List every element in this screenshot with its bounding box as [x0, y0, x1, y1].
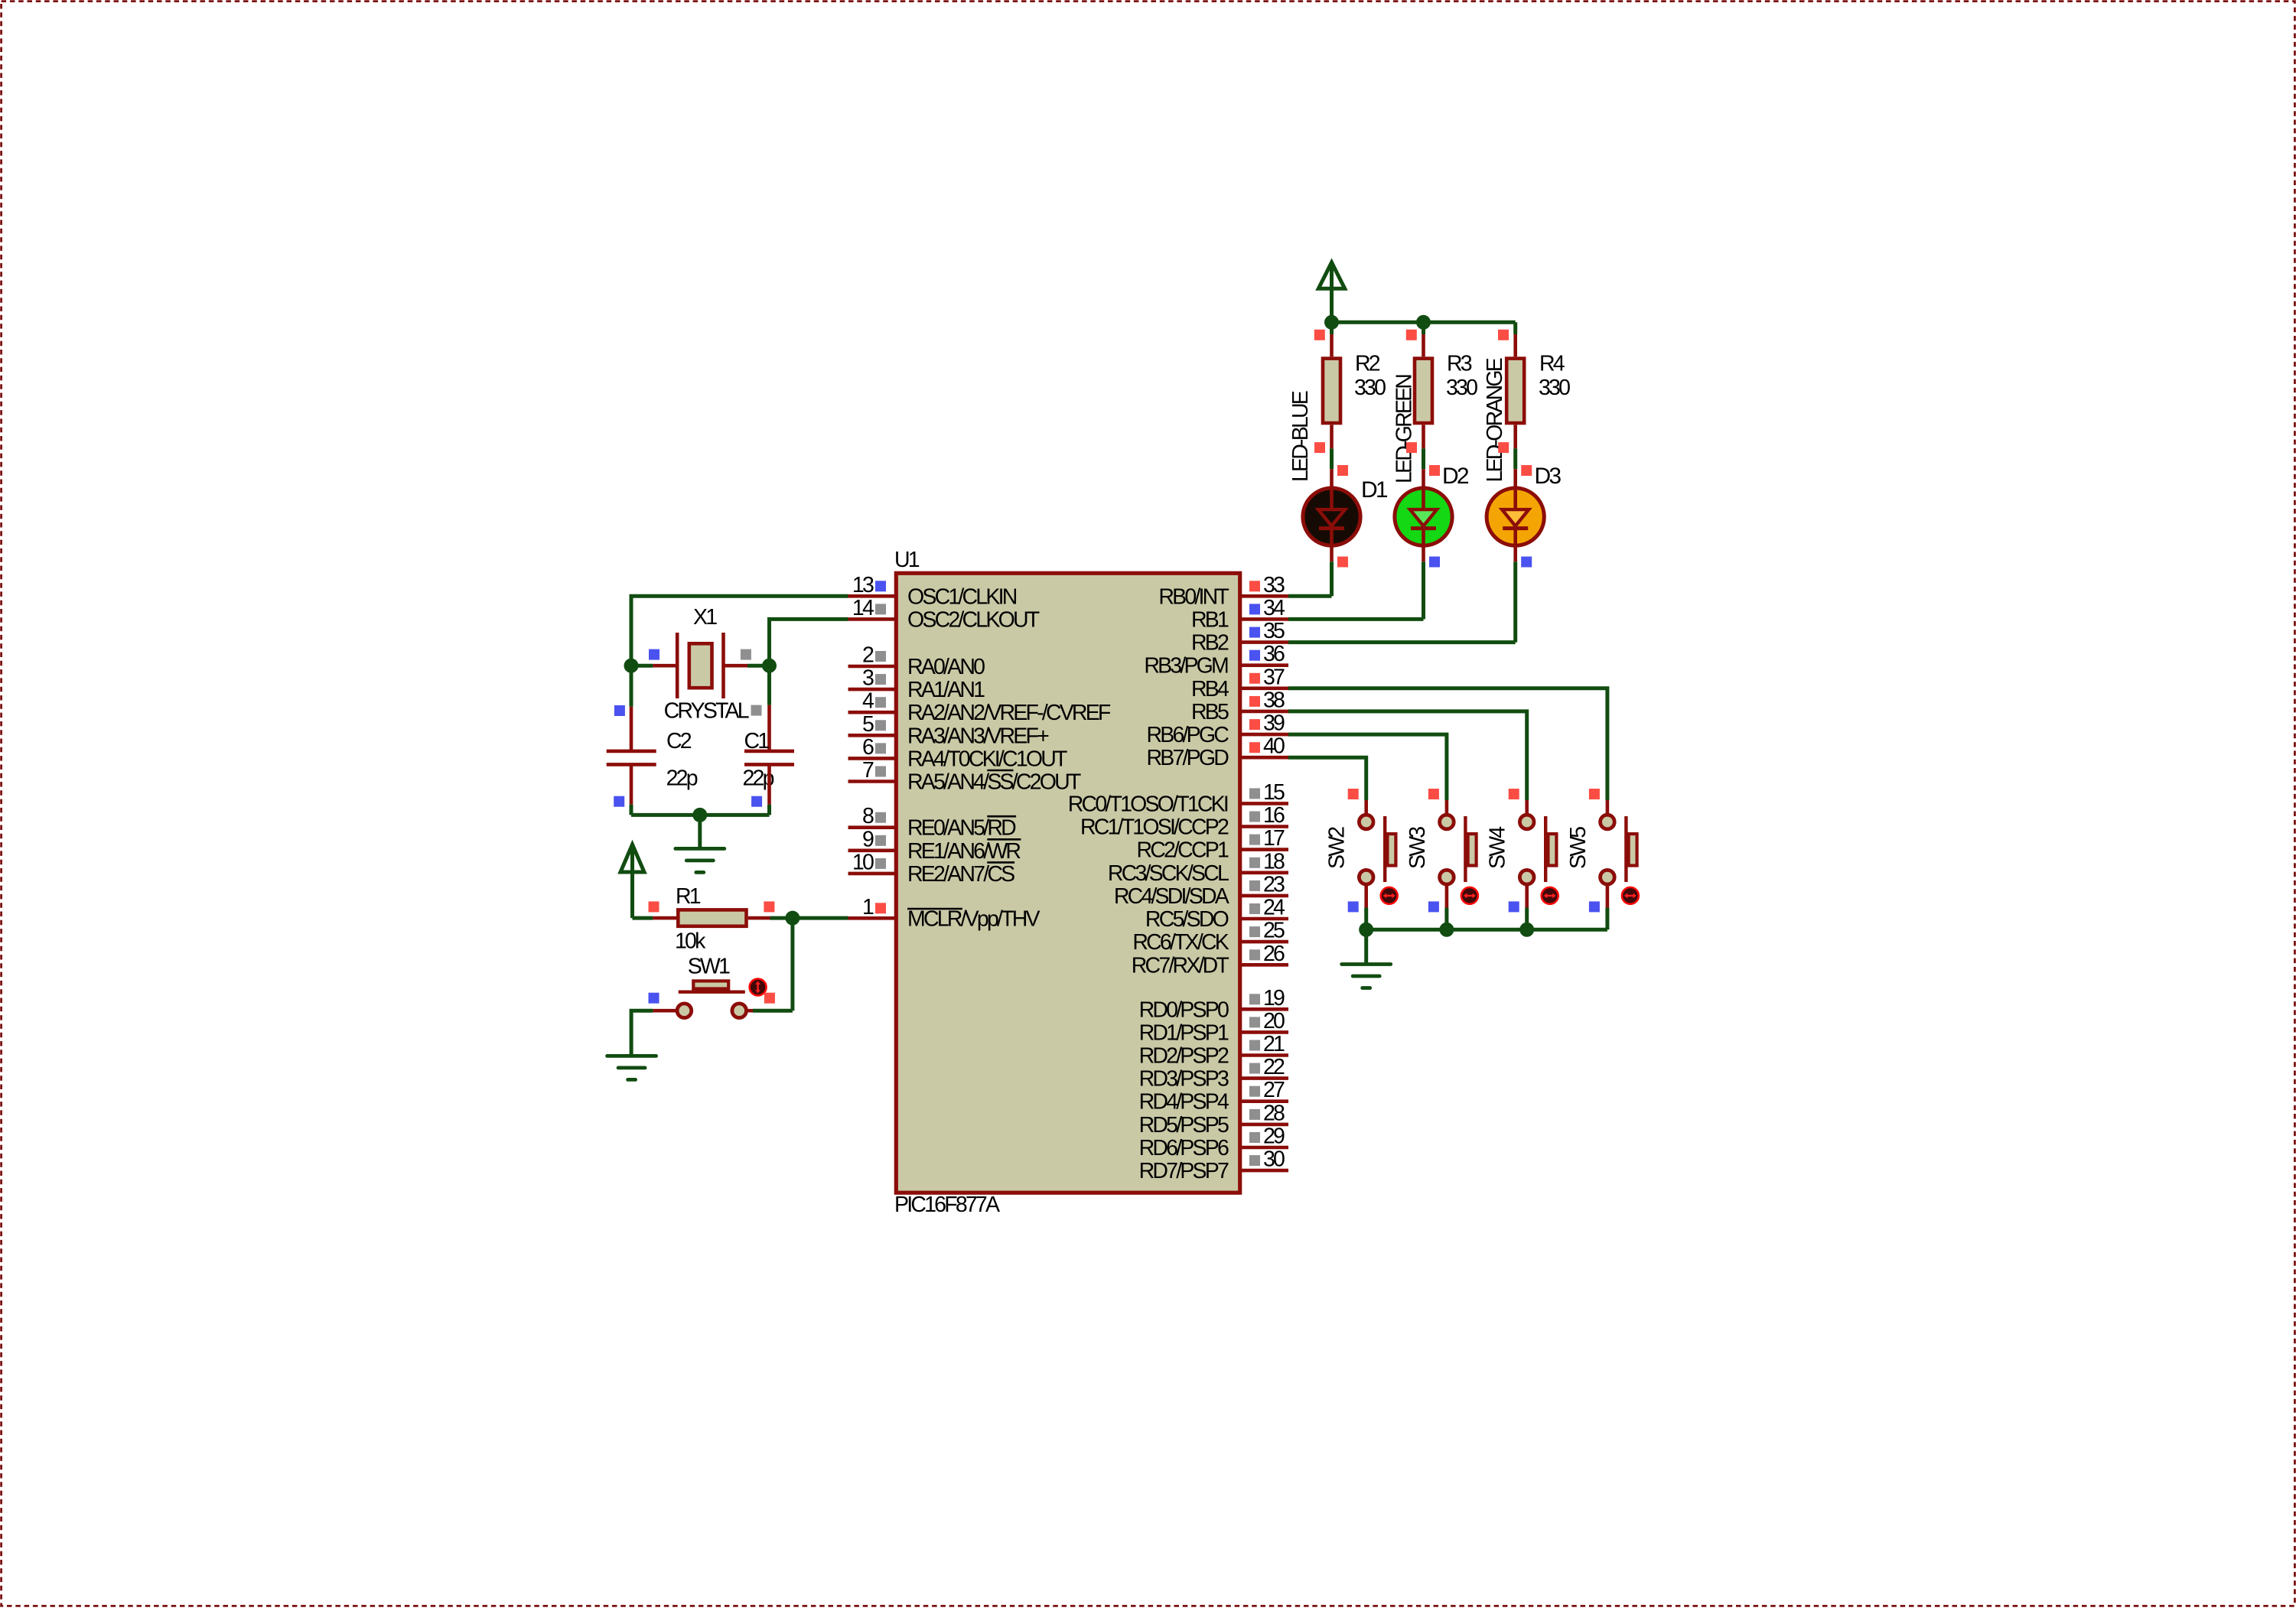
svg-text:R2: R2	[1355, 352, 1380, 376]
U1 pin 34 (RB1)	[1191, 596, 1288, 633]
ground (crystal)	[676, 848, 725, 872]
crystal X1 right pin	[724, 664, 748, 668]
wire D1 cathode down	[1330, 561, 1334, 596]
svg-text:LED-ORANGE: LED-ORANGE	[1483, 358, 1507, 482]
switch SW5 top pin	[1606, 800, 1610, 814]
power symbol (VCC at LEDs)	[1318, 262, 1344, 288]
U1 pin 25 (RC6/TX/CK)	[1132, 919, 1288, 955]
wire crystal left lead	[631, 664, 653, 668]
wire rail to switches ground	[1364, 929, 1368, 964]
capacitor C1 bottom pin	[767, 764, 771, 804]
LED D3 top pin	[1513, 469, 1517, 488]
switch SW2 bottom pin state square	[1348, 901, 1359, 912]
svg-text:C2: C2	[666, 729, 692, 753]
overline WR of RE1/AN6/WR	[987, 838, 1021, 841]
wire MCLR junction down to SW1	[790, 918, 794, 1011]
svg-text:RD2/PSP2: RD2/PSP2	[1139, 1044, 1229, 1069]
svg-text:RA0/AN0: RA0/AN0	[907, 655, 985, 679]
svg-text:RC3/SCK/SCL: RC3/SCK/SCL	[1108, 861, 1229, 886]
wire U1 to SW3	[1288, 734, 1447, 800]
U1 pin 33 (RB0/INT)	[1158, 573, 1288, 610]
U1 pin 35 (RB2)	[1191, 619, 1288, 656]
LED D2 top pin	[1422, 469, 1425, 488]
svg-text:RD4/PSP4: RD4/PSP4	[1139, 1090, 1229, 1115]
svg-text:RA3/AN3/VREF+: RA3/AN3/VREF+	[907, 724, 1049, 748]
svg-text:X1: X1	[693, 605, 717, 630]
svg-text:6: 6	[862, 735, 874, 760]
capacitor C2 bottom pin	[630, 764, 633, 804]
switch SW3 bottom pin state square	[1428, 901, 1439, 912]
resistor R4 bottom pin state square	[1498, 442, 1509, 453]
switch SW1 left pin	[653, 1009, 676, 1013]
wire rail to R4	[1513, 322, 1517, 334]
svg-text:9: 9	[862, 827, 874, 851]
switch SW1 left pin state square	[649, 993, 659, 1004]
resistor R2 bottom pin state square	[1314, 442, 1325, 453]
U1 pin 10 (RE2/AN7/CS)	[848, 850, 1015, 887]
svg-text:40: 40	[1263, 734, 1285, 759]
LED D1 top pin	[1330, 469, 1334, 488]
svg-text:36: 36	[1263, 642, 1285, 666]
U1 pin 8 (RE0/AN5/RD)	[848, 804, 1017, 841]
node rail at SW4	[1519, 923, 1534, 937]
switch SW3 top pin	[1445, 800, 1449, 814]
switch SW4 top pin	[1525, 800, 1529, 814]
svg-text:RB2: RB2	[1191, 631, 1229, 656]
svg-text:RE2/AN7/CS: RE2/AN7/CS	[907, 862, 1014, 887]
U1 pin 29 (RD6/PSP6)	[1139, 1124, 1288, 1161]
svg-text:27: 27	[1263, 1078, 1285, 1102]
switch SW3	[1440, 815, 1478, 904]
wire SW4 to ground rail	[1525, 908, 1529, 930]
switch SW1	[677, 979, 766, 1018]
svg-text:RB4: RB4	[1191, 677, 1229, 701]
svg-text:25: 25	[1263, 919, 1285, 943]
U1 pin 18 (RC3/SCK/SCL)	[1108, 849, 1288, 886]
svg-text:PIC16F877A: PIC16F877A	[894, 1193, 1000, 1217]
node rail at SW3	[1439, 923, 1454, 937]
resistor R1 right pin state square	[764, 901, 774, 912]
svg-text:RC7/RX/DT: RC7/RX/DT	[1132, 953, 1229, 978]
svg-text:RD7/PSP7: RD7/PSP7	[1139, 1159, 1229, 1183]
svg-text:R4: R4	[1539, 352, 1565, 376]
U1 pin 38 (RB5)	[1191, 688, 1288, 724]
svg-text:29: 29	[1263, 1124, 1285, 1149]
svg-text:RE1/AN6/WR: RE1/AN6/WR	[907, 839, 1021, 864]
svg-text:RC6/TX/CK: RC6/TX/CK	[1132, 930, 1229, 955]
svg-text:13: 13	[852, 573, 874, 597]
svg-text:330: 330	[1446, 376, 1477, 400]
wire rail to R3	[1422, 322, 1425, 334]
svg-text:SW5: SW5	[1566, 827, 1591, 869]
svg-text:37: 37	[1263, 665, 1285, 689]
svg-text:R1: R1	[676, 884, 701, 909]
resistor R2 body	[1323, 359, 1340, 423]
LED D3 top pin state square	[1521, 465, 1532, 476]
svg-text:24: 24	[1263, 896, 1285, 920]
capacitor C1	[744, 751, 794, 765]
wire SW2 to ground rail	[1364, 908, 1368, 930]
LED D3 bottom pin state square	[1521, 557, 1532, 568]
U1 pin 7 (RA5/AN4/SS/C2OUT)	[848, 758, 1081, 795]
svg-text:RA4/T0CKI/C1OUT: RA4/T0CKI/C1OUT	[907, 747, 1067, 771]
node rail at SW2	[1359, 923, 1373, 937]
svg-text:19: 19	[1263, 986, 1285, 1011]
switch SW5	[1601, 815, 1639, 904]
resistor R2 top pin state square	[1314, 330, 1325, 340]
resistor R1 left pin state square	[649, 901, 659, 912]
wire power arrow down to R1 wire	[630, 845, 634, 918]
wire R4 to D3	[1513, 448, 1517, 469]
LED D2 top pin state square	[1429, 465, 1440, 476]
ground (SW1)	[607, 1056, 656, 1079]
wire U1 to SW4	[1288, 711, 1527, 800]
LED D1 top pin state square	[1337, 465, 1348, 476]
svg-text:RC5/SDO: RC5/SDO	[1145, 907, 1229, 932]
svg-text:30: 30	[1263, 1147, 1285, 1172]
svg-text:C1: C1	[744, 729, 770, 753]
resistor R3 top pin	[1422, 334, 1425, 356]
svg-text:RD5/PSP5: RD5/PSP5	[1139, 1113, 1229, 1137]
wire crystal right node down to C1	[767, 666, 771, 705]
switch SW4 top pin state square	[1509, 789, 1519, 799]
svg-text:17: 17	[1263, 826, 1285, 851]
switch SW3 top pin state square	[1428, 789, 1439, 799]
wire R2 to D1	[1330, 448, 1334, 469]
overline RD of RE0/AN5/RD	[987, 815, 1016, 818]
svg-text:OSC1/CLKIN: OSC1/CLKIN	[907, 584, 1017, 609]
wire power to R1 left	[633, 916, 653, 920]
switch SW2 bottom pin	[1364, 885, 1368, 908]
svg-text:22: 22	[1263, 1055, 1285, 1079]
svg-text:23: 23	[1263, 872, 1285, 897]
resistor R3 top pin state square	[1406, 330, 1417, 340]
svg-text:D3: D3	[1535, 464, 1562, 489]
svg-text:330: 330	[1354, 376, 1386, 400]
wire D3 to U1	[1288, 640, 1516, 644]
switch SW4 bottom pin	[1525, 885, 1529, 908]
wire C1 bottom to gnd rail	[767, 805, 771, 815]
svg-text:MCLR/Vpp/THV: MCLR/Vpp/THV	[907, 906, 1040, 931]
wire power arrow to LED rail	[1330, 262, 1334, 322]
capacitor C1 bottom pin state square	[751, 796, 762, 807]
LED D2	[1395, 488, 1452, 545]
capacitor C1 top pin	[767, 705, 771, 750]
svg-text:8: 8	[862, 804, 874, 828]
node MCLR junction	[785, 911, 800, 926]
svg-text:10: 10	[852, 850, 874, 874]
svg-text:18: 18	[1263, 849, 1285, 874]
U1 pin 39 (RB6/PGC)	[1146, 711, 1288, 748]
crystal X1 left pin state square	[649, 649, 659, 660]
overline SS of RA5/AN4/SS/C2OUT	[987, 770, 1013, 772]
U1 pin 13 (OSC1/CLKIN)	[848, 573, 1017, 610]
switch SW3 bottom pin	[1445, 885, 1449, 908]
svg-text:RD0/PSP0: RD0/PSP0	[1139, 998, 1229, 1022]
wire OSC1 pin13 to crystal left node	[631, 596, 848, 666]
wire U1 to SW5	[1288, 688, 1607, 800]
LED D3	[1487, 488, 1544, 545]
svg-text:LED-GREEN: LED-GREEN	[1392, 375, 1417, 483]
resistor R1 body	[678, 910, 746, 926]
svg-text:20: 20	[1263, 1009, 1285, 1033]
U1 pin 27 (RD4/PSP4)	[1139, 1078, 1288, 1115]
wire LED power rail	[1332, 321, 1516, 324]
U1 pin 16 (RC1/T1OSI/CCP2)	[1080, 803, 1288, 840]
svg-text:21: 21	[1263, 1032, 1285, 1056]
svg-text:RC1/T1OSI/CCP2: RC1/T1OSI/CCP2	[1080, 815, 1229, 840]
overline CS of RE2/AN7/CS	[987, 861, 1014, 864]
svg-text:RB3/PGM: RB3/PGM	[1144, 654, 1228, 679]
svg-text:OSC2/CLKOUT: OSC2/CLKOUT	[907, 607, 1040, 632]
LED D2 bottom pin	[1422, 545, 1425, 561]
power symbol (VCC at R1)	[620, 845, 644, 872]
svg-text:D1: D1	[1361, 477, 1388, 503]
wire D2 cathode down	[1422, 561, 1425, 619]
svg-text:RA5/AN4/SS/C2OUT: RA5/AN4/SS/C2OUT	[907, 770, 1081, 795]
U1 pin 15 (RC0/T1OSO/T1CKI)	[1068, 780, 1288, 817]
U1 pin 37 (RB4)	[1191, 665, 1288, 701]
svg-text:RA2/AN2/VREF-/CVREF: RA2/AN2/VREF-/CVREF	[907, 701, 1111, 725]
U1 pin 6 (RA4/T0CKI/C1OUT)	[848, 735, 1068, 772]
node crystal left junction	[624, 659, 639, 673]
LED D3 bottom pin	[1513, 545, 1517, 561]
wire OSC2 pin14 to crystal right node	[770, 619, 848, 666]
svg-text:28: 28	[1263, 1101, 1285, 1125]
node rail at R3	[1416, 315, 1431, 330]
wire C2 bottom to gnd rail	[630, 805, 633, 815]
resistor R2 bottom pin	[1330, 425, 1334, 448]
capacitor C1 top pin state square	[751, 705, 762, 716]
U1 pin 40 (RB7/PGD)	[1146, 734, 1288, 771]
svg-text:3: 3	[862, 666, 874, 691]
capacitor C2 top pin state square	[614, 705, 625, 716]
wire crystal left node down to C2	[630, 666, 633, 707]
switch SW2 top pin state square	[1348, 789, 1359, 799]
U1 pin 2 (RA0/AN0)	[848, 643, 985, 680]
svg-text:RD3/PSP3: RD3/PSP3	[1139, 1067, 1229, 1092]
U1 pin 22 (RD3/PSP3)	[1139, 1055, 1288, 1092]
U1 pin 23 (RC4/SDI/SDA)	[1114, 872, 1288, 909]
wire R3 to D2	[1422, 448, 1425, 469]
wire switch ground rail	[1366, 928, 1607, 932]
U1 pin 14 (OSC2/CLKOUT)	[848, 596, 1040, 633]
U1 pin 1 (MCLR/Vpp/THV)	[848, 895, 1041, 932]
wire crystal right lead	[747, 664, 770, 668]
resistor R3 bottom pin state square	[1406, 442, 1417, 453]
resistor R1 left pin	[653, 916, 676, 920]
svg-text:38: 38	[1263, 688, 1285, 712]
IC U1 PIC16F877A body	[896, 573, 1239, 1193]
wire U1 to SW2	[1288, 757, 1366, 800]
switch SW2	[1359, 815, 1397, 904]
U1 pin 28 (RD5/PSP5)	[1139, 1101, 1288, 1137]
svg-text:RC4/SDI/SDA: RC4/SDI/SDA	[1114, 884, 1229, 909]
crystal X1 left pin	[653, 664, 676, 668]
switch SW4 bottom pin state square	[1509, 901, 1519, 912]
resistor R4 top pin	[1513, 334, 1517, 356]
LED D1	[1303, 488, 1360, 545]
wire D2 to U1	[1288, 617, 1424, 621]
resistor R3 bottom pin	[1422, 425, 1425, 448]
switch SW4	[1519, 815, 1558, 904]
svg-text:5: 5	[862, 712, 874, 737]
ground (switches)	[1342, 965, 1391, 988]
svg-text:LED-BLUE: LED-BLUE	[1288, 391, 1313, 482]
wire rail to crystal ground	[698, 815, 702, 848]
switch SW1 right pin state square	[764, 993, 775, 1004]
wire down-leg to SW1 right contact	[753, 1009, 793, 1013]
svg-text:SW4: SW4	[1486, 826, 1510, 869]
U1 pin 20 (RD1/PSP1)	[1139, 1009, 1288, 1046]
wire rail to R2	[1330, 322, 1334, 334]
svg-text:2: 2	[862, 643, 874, 668]
svg-text:RB7/PGD: RB7/PGD	[1146, 746, 1229, 770]
switch SW5 top pin state square	[1589, 789, 1600, 799]
svg-text:RC2/CCP1: RC2/CCP1	[1136, 838, 1229, 863]
svg-text:RE0/AN5/RD: RE0/AN5/RD	[907, 816, 1016, 841]
svg-text:RB5: RB5	[1191, 700, 1229, 724]
U1 pin 19 (RD0/PSP0)	[1139, 986, 1288, 1023]
resistor R1 right pin	[748, 916, 770, 920]
U1 pin 24 (RC5/SDO)	[1145, 896, 1288, 932]
resistor R2 top pin	[1330, 334, 1334, 356]
svg-text:39: 39	[1263, 711, 1285, 736]
svg-text:SW3: SW3	[1405, 827, 1430, 869]
wire SW5 to ground rail	[1605, 908, 1609, 930]
capacitor C2 bottom pin state square	[614, 796, 624, 807]
wire capacitor ground rail	[631, 813, 770, 817]
U1 pin 26 (RC7/RX/DT)	[1132, 942, 1288, 978]
U1 pin 21 (RD2/PSP2)	[1139, 1032, 1288, 1069]
LED D2 bottom pin state square	[1429, 557, 1440, 568]
resistor R4 top pin state square	[1498, 330, 1509, 340]
U1 pin 17 (RC2/CCP1)	[1136, 826, 1288, 863]
crystal X1 right pin state square	[741, 649, 751, 660]
svg-text:26: 26	[1263, 942, 1285, 966]
svg-text:35: 35	[1263, 619, 1285, 643]
capacitor C2	[607, 751, 656, 765]
svg-text:RC0/T1OSO/T1CKI: RC0/T1OSO/T1CKI	[1068, 792, 1228, 816]
U1 pin 36 (RB3/PGM)	[1144, 642, 1288, 679]
svg-text:RD1/PSP1: RD1/PSP1	[1139, 1020, 1229, 1045]
LED D1 bottom pin state square	[1337, 557, 1348, 568]
svg-text:16: 16	[1263, 803, 1285, 828]
svg-text:CRYSTAL: CRYSTAL	[664, 699, 749, 724]
resistor R4 body	[1506, 359, 1524, 423]
node crystal right junction	[762, 659, 777, 673]
wire D1 to U1	[1288, 594, 1332, 598]
wire D3 cathode down	[1513, 561, 1517, 642]
resistor R4 bottom pin	[1513, 425, 1517, 448]
svg-text:7: 7	[862, 758, 874, 783]
node capacitor rail junction	[692, 808, 707, 822]
svg-text:SW1: SW1	[688, 955, 730, 979]
svg-text:10k: 10k	[675, 929, 706, 954]
svg-text:RB6/PGC: RB6/PGC	[1146, 723, 1229, 747]
switch SW5 bottom pin state square	[1589, 901, 1600, 912]
wire SW3 to ground rail	[1444, 908, 1448, 930]
svg-text:330: 330	[1539, 376, 1570, 400]
svg-text:SW2: SW2	[1325, 827, 1350, 869]
svg-text:15: 15	[1263, 780, 1285, 805]
svg-text:U1: U1	[894, 548, 920, 572]
capacitor C2 top pin	[630, 707, 633, 750]
wire SW1 left contact to ground	[631, 1011, 653, 1056]
svg-text:14: 14	[852, 596, 874, 620]
resistor R3 body	[1415, 359, 1432, 423]
U1 pin 4 (RA2/AN2/VREF-/CVREF)	[848, 689, 1111, 726]
node rail at R2	[1324, 315, 1339, 330]
U1 pin 3 (RA1/AN1)	[848, 666, 985, 703]
wire R1 to MCLR pin1	[770, 916, 848, 920]
svg-text:RB0/INT: RB0/INT	[1158, 584, 1229, 609]
LED D1 bottom pin	[1330, 545, 1334, 561]
svg-text:R3: R3	[1447, 352, 1472, 376]
svg-text:1: 1	[862, 895, 874, 919]
svg-text:33: 33	[1263, 573, 1285, 597]
svg-text:22p: 22p	[666, 766, 698, 791]
svg-text:34: 34	[1263, 596, 1285, 620]
svg-text:RD6/PSP6: RD6/PSP6	[1139, 1136, 1229, 1160]
U1 pin 5 (RA3/AN3/VREF+)	[848, 712, 1050, 749]
overline MCLR of MCLR/Vpp/THV	[907, 908, 962, 910]
svg-text:RA1/AN1: RA1/AN1	[907, 678, 985, 702]
switch SW5 bottom pin	[1606, 885, 1610, 908]
U1 pin 30 (RD7/PSP7)	[1139, 1147, 1288, 1184]
switch SW2 top pin	[1364, 800, 1368, 814]
switch SW1 right pin	[747, 1009, 754, 1013]
crystal X1	[677, 633, 723, 698]
svg-text:D2: D2	[1442, 464, 1469, 489]
U1 pin 9 (RE1/AN6/WR)	[848, 827, 1021, 864]
svg-text:RB1: RB1	[1191, 607, 1229, 632]
